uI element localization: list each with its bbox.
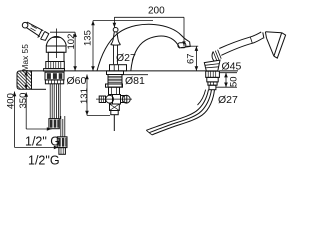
dim 67 — [186, 46, 199, 71]
dim 200 — [113, 6, 186, 47]
svg-text:Ø27: Ø27 — [218, 94, 238, 106]
tee centerline — [96, 98, 132, 100]
faucet dome — [46, 37, 66, 46]
lever handle — [22, 22, 48, 40]
nut below tee — [110, 104, 120, 111]
svg-text:Max 55: Max 55 — [20, 44, 30, 72]
spout outlet — [181, 42, 190, 48]
knurl band — [46, 62, 65, 69]
dim Max 55 — [20, 44, 30, 90]
diverter neck — [109, 87, 120, 94]
dim 400 — [6, 92, 59, 150]
svg-text:1/2" G: 1/2" G — [25, 135, 60, 149]
shower head cone — [265, 32, 285, 58]
faucet body — [48, 52, 64, 61]
svg-text:200: 200 — [148, 6, 165, 17]
tee right hex cap — [121, 96, 127, 103]
tee left port circle — [106, 95, 114, 103]
svg-text:131: 131 — [79, 88, 90, 104]
deck section block — [17, 71, 46, 89]
flange — [44, 69, 65, 72]
deck line left — [22, 70, 206, 72]
spout inner curve — [131, 36, 180, 71]
pipe below — [113, 115, 115, 131]
dim 135 — [83, 21, 154, 71]
supply pipes bundle — [50, 84, 60, 120]
leader Ø81 — [122, 74, 148, 76]
diverter flange — [106, 84, 123, 87]
svg-text:135: 135 — [83, 30, 94, 46]
G1/2 nut 1 — [49, 119, 59, 129]
G1/2 nut 2 — [57, 137, 67, 148]
tee right knob circle — [122, 95, 130, 103]
dim 102 — [50, 32, 77, 71]
hose — [146, 90, 214, 135]
escutcheon — [110, 65, 127, 71]
centerline faucet — [52, 29, 61, 59]
shower handle — [212, 32, 263, 61]
svg-text:Ø45: Ø45 — [222, 61, 242, 73]
below-deck nut — [45, 72, 64, 80]
tee left hex cap — [99, 96, 105, 103]
tailpiece — [59, 148, 66, 155]
diverter top collar — [107, 71, 124, 75]
faucet collar — [46, 46, 66, 52]
diverter knob — [111, 28, 121, 65]
svg-text:1/2"G: 1/2"G — [28, 154, 60, 168]
neck collar — [263, 32, 267, 39]
spout outer curve — [97, 24, 190, 71]
diverter threaded pipe — [108, 75, 122, 88]
svg-text:Ø60: Ø60 — [67, 75, 87, 87]
dim 131 — [79, 75, 110, 116]
svg-text:Ø81: Ø81 — [125, 75, 145, 87]
dim 50 — [216, 73, 240, 88]
deck line right — [219, 70, 238, 72]
svg-text:50: 50 — [229, 76, 240, 87]
fitting below nut — [111, 111, 118, 115]
holder socket — [204, 60, 220, 71]
washer — [45, 80, 63, 84]
dim 350 — [18, 92, 52, 131]
tee body — [113, 95, 121, 105]
holder below deck — [206, 71, 220, 90]
svg-text:67: 67 — [186, 53, 197, 64]
pipe 2 — [61, 116, 65, 137]
